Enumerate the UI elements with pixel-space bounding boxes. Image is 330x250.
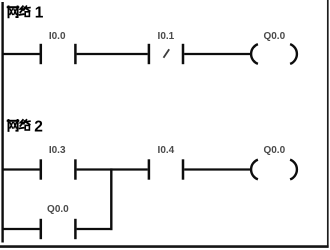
branch contact Q0.0 right bar	[74, 219, 77, 239]
network 1 title 网络 1	[8, 6, 30, 17]
contact I0.0 left bar	[40, 44, 43, 64]
branch junction vertical	[110, 168, 112, 230]
wire I0.1 to coil Q0.0	[184, 53, 250, 55]
contact I0.4 right bar	[182, 159, 185, 179]
coil Q0.0 right paren (network 2)	[290, 160, 297, 180]
svg-text:2: 2	[34, 118, 43, 135]
wire rail to I0.0	[2, 53, 40, 55]
bottom window border	[0, 245, 329, 248]
branch contact Q0.0 left bar	[40, 219, 43, 239]
branch wire contact to junction	[77, 228, 113, 230]
contact I0.1 right bar	[182, 44, 185, 64]
svg-text:I0.3: I0.3	[49, 145, 66, 156]
contact I0.3 right bar	[74, 159, 77, 179]
glyph 网	[8, 6, 19, 17]
svg-text:I0.0: I0.0	[49, 31, 66, 42]
contact I0.1 NC slash	[164, 49, 170, 58]
coil Q0.0 left paren (network 2)	[251, 160, 258, 180]
network 2 title 网络 2	[8, 120, 30, 131]
wire I0.3 to I0.4	[77, 168, 148, 170]
left power rail	[1, 2, 3, 243]
right window border	[327, 0, 329, 248]
glyph 络	[20, 6, 30, 16]
contact I0.3 left bar	[40, 159, 43, 179]
contact I0.4 left bar	[148, 159, 151, 179]
glyph 络	[20, 120, 30, 130]
wire rail to I0.3	[2, 168, 40, 170]
svg-text:Q0.0: Q0.0	[47, 204, 69, 215]
svg-text:I0.1: I0.1	[158, 31, 175, 42]
contact I0.1 left bar	[148, 44, 151, 64]
wire I0.4 to coil Q0.0	[184, 168, 250, 170]
coil Q0.0 right paren	[290, 44, 297, 64]
contact I0.0 right bar	[74, 44, 77, 64]
svg-text:I0.4: I0.4	[158, 145, 175, 156]
coil Q0.0 left paren	[251, 44, 258, 64]
svg-text:1: 1	[35, 4, 44, 21]
svg-text:Q0.0: Q0.0	[263, 31, 285, 42]
branch wire rail to Q0.0 contact	[2, 228, 40, 230]
wire I0.0 to I0.1	[77, 53, 148, 55]
svg-text:Q0.0: Q0.0	[263, 145, 285, 156]
glyph 网	[8, 120, 19, 131]
